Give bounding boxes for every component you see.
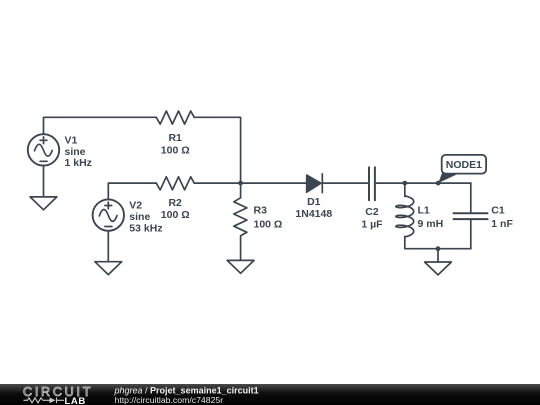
svg-text:sine: sine [129,211,150,223]
footer bar [0,384,540,405]
ground under V1 [30,197,57,210]
svg-text:C2: C2 [365,206,379,218]
ground under V2 [95,262,122,275]
diode D1 [307,174,323,193]
ground bottom right [425,262,452,275]
junction node at L1 top [402,181,407,186]
junction node bottom ground [436,246,441,251]
svg-text:sine: sine [65,146,86,158]
svg-text:1N4148: 1N4148 [295,208,332,220]
resistor R3 [234,183,247,260]
svg-text:L1: L1 [418,205,430,217]
ground under R3 [227,260,254,273]
svg-text:53 kHz: 53 kHz [129,222,162,234]
wire V2 to ground [107,231,109,262]
svg-text:R3: R3 [254,205,268,217]
svg-text:LAB: LAB [65,396,86,405]
svg-text:1 nF: 1 nF [491,218,513,230]
svg-text:http://circuitlab.com/c74825r: http://circuitlab.com/c74825r [115,395,224,405]
svg-text:100 Ω: 100 Ω [161,144,190,156]
svg-text:R1: R1 [168,132,182,144]
svg-text:V2: V2 [129,200,142,212]
wire C2 to C1 branch [376,182,471,184]
svg-text:1 kHz: 1 kHz [65,157,92,169]
svg-text:9 mH: 9 mH [418,218,444,230]
capacitor C2 [369,167,375,200]
svg-text:100 Ω: 100 Ω [254,219,283,231]
svg-text:R2: R2 [168,197,182,209]
junction node at R1/R2/R3 [238,181,243,186]
inductor L1 [396,183,414,249]
wire R2 to diode [194,182,307,184]
svg-text:C1: C1 [491,205,505,217]
svg-text:V1: V1 [65,135,78,147]
wire V1 to ground [43,166,45,197]
svg-text:D1: D1 [307,196,321,208]
wire V2 to R2 [108,183,156,199]
wire to ground bottom [437,249,439,262]
capacitor C1 [454,183,488,249]
logo resistor+diode [24,398,65,404]
wire top row from V1 to R1 [44,117,157,134]
node flag NODE1 [438,155,486,183]
resistor R2 [156,177,194,190]
voltage source V2 [93,199,124,230]
wire from R1 down to junction [194,117,240,183]
svg-text:1 µF: 1 µF [361,218,383,230]
svg-text:NODE1: NODE1 [446,159,482,171]
wire diode to C2 [322,182,368,184]
svg-text:100 Ω: 100 Ω [161,209,190,221]
junction node NODE1 [436,181,441,186]
voltage source V1 [28,134,59,165]
bottom wire L1 to C1 [405,248,471,250]
resistor R1 [156,111,194,124]
